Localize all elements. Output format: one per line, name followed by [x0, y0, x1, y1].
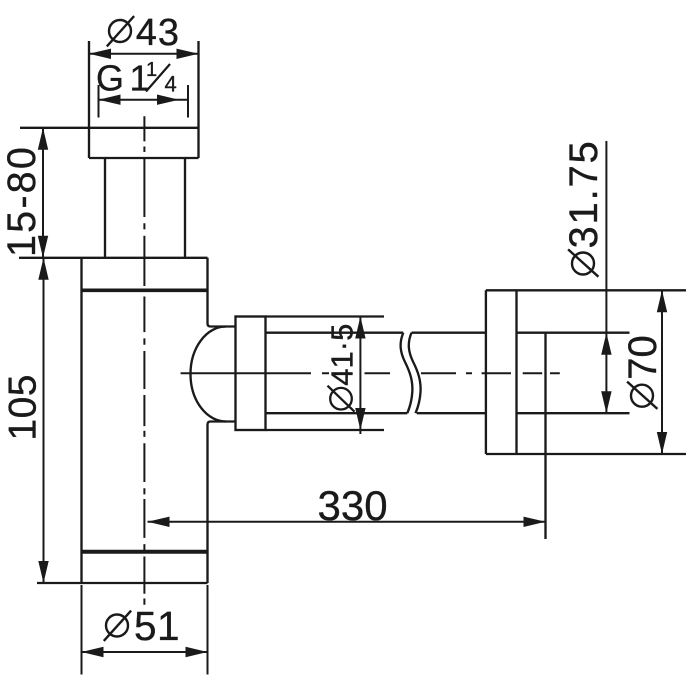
- horizontal centerline (dash-dot segments): [181, 372, 560, 374]
- label G1-1/4: [96, 58, 177, 99]
- wall flange top edge with right extension: [486, 289, 686, 291]
- arrowheads d31.75: [601, 333, 611, 355]
- inlet flange top edge with left extension: [20, 127, 199, 129]
- svg-text:G: G: [96, 58, 124, 99]
- wall flange left edge: [485, 290, 487, 454]
- svg-text:1: 1: [146, 59, 157, 81]
- inlet flange left side / ext line: [88, 41, 90, 158]
- outlet pipe top wall (left of break): [266, 332, 404, 334]
- dim line d41.5: [359, 316, 361, 435]
- dim line 330: [148, 521, 546, 523]
- arrowheads d51: [82, 647, 104, 657]
- body right wall upper: [208, 258, 236, 327]
- dim line d70: [661, 290, 663, 454]
- arrowheads 105: [38, 258, 48, 280]
- pipe break curve right: [409, 333, 421, 414]
- outlet bell arc: [191, 327, 227, 422]
- leader line d31.75: [605, 141, 607, 413]
- svg-text:330: 330: [318, 482, 388, 529]
- svg-text:31.75: 31.75: [562, 139, 606, 248]
- label d43: [107, 12, 180, 54]
- outlet pipe bottom wall (left of break): [266, 412, 408, 414]
- inlet pipe right wall: [184, 158, 186, 258]
- svg-text:43: 43: [136, 12, 180, 54]
- svg-text:4: 4: [165, 71, 177, 96]
- dim line 15-80: [42, 128, 44, 258]
- body right wall lower: [208, 422, 236, 584]
- pipe top wall right of flange / ext line: [517, 332, 630, 334]
- pipe break curve left: [401, 333, 413, 414]
- label d41.5 (rotated): [324, 324, 359, 412]
- outlet pipe bottom wall (right of break): [417, 412, 486, 414]
- dim line 105: [43, 258, 45, 583]
- svg-text:70: 70: [621, 335, 665, 380]
- pipe bottom wall right of flange / ext line: [517, 412, 630, 414]
- svg-text:15-80: 15-80: [0, 145, 44, 257]
- dim ext lines d51: [81, 585, 83, 675]
- label d51: [104, 603, 180, 649]
- body bottom edge with left extension: [37, 582, 208, 584]
- wall flange right edge: [515, 290, 517, 454]
- inlet pipe left wall: [104, 158, 106, 258]
- arrowheads 330: [148, 517, 170, 527]
- outlet nut: [236, 317, 266, 431]
- inlet flange bottom edge: [89, 157, 199, 159]
- label d70 (rotated): [621, 335, 665, 409]
- dim line d51: [82, 651, 208, 653]
- arrowheads G1-1/4: [99, 95, 121, 105]
- body top edge with left extension: [19, 257, 208, 259]
- svg-text:105: 105: [2, 374, 45, 441]
- svg-text:41·5: 41·5: [324, 324, 359, 386]
- inlet flange right side / ext line: [197, 41, 199, 158]
- wall flange bottom edge with right extension: [486, 453, 686, 455]
- dim ticks G1-1/4: [98, 85, 100, 118]
- dim line d43: [89, 53, 199, 55]
- arrowheads d43: [89, 49, 111, 59]
- body bottom seam (thick): [81, 550, 209, 554]
- outlet sleeve top wall: [266, 315, 385, 317]
- arrowheads d41.5: [355, 317, 365, 339]
- svg-text:51: 51: [134, 603, 180, 649]
- body top seam (thick): [82, 288, 208, 292]
- vertical centerline (dash-dot segments): [143, 116, 145, 604]
- outlet pipe top wall (right of break): [412, 332, 486, 334]
- arrowheads d70: [657, 290, 667, 312]
- dim line G1-1/4: [99, 99, 189, 101]
- arrowheads 15-80: [38, 128, 48, 150]
- label 15-80 (rotated): [0, 145, 44, 257]
- outlet sleeve bottom wall: [266, 429, 385, 431]
- body left wall: [80, 258, 82, 583]
- pipe end wall line / 330 ext line: [544, 333, 546, 539]
- label d31.75 (rotated): [562, 139, 606, 276]
- label 105 (rotated): [2, 374, 45, 441]
